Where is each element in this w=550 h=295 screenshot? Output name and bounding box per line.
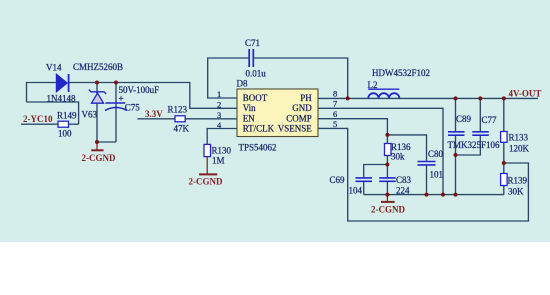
svg-text:C71: C71 bbox=[245, 38, 260, 48]
svg-text:C89: C89 bbox=[456, 114, 472, 124]
svg-text:COMP: COMP bbox=[286, 113, 312, 123]
junction rail at C80 bbox=[425, 193, 429, 197]
svg-text:100: 100 bbox=[58, 129, 72, 139]
svg-text:1N4148: 1N4148 bbox=[47, 94, 76, 104]
wire ground rail bbox=[364, 194, 504, 196]
svg-text:120K: 120K bbox=[509, 144, 530, 154]
wire pin1 BOOT bbox=[208, 58, 249, 98]
svg-text:R133: R133 bbox=[509, 133, 529, 143]
wire main top net (anode side) bbox=[27, 83, 57, 103]
svg-text:V14: V14 bbox=[46, 63, 62, 73]
resistor R139 bbox=[501, 174, 508, 186]
svg-text:TMK325F106: TMK325F106 bbox=[448, 140, 501, 150]
zener diode V63 bbox=[89, 90, 106, 104]
svg-text:224: 224 bbox=[396, 185, 410, 195]
junction C71 at PH bbox=[346, 96, 350, 100]
wire C80 bottom stub bbox=[426, 166, 428, 195]
svg-text:50V-100uF: 50V-100uF bbox=[119, 85, 160, 95]
svg-text:2-CGND: 2-CGND bbox=[189, 177, 223, 187]
svg-text:101: 101 bbox=[430, 169, 444, 179]
wire R139 bottom stub bbox=[503, 186, 505, 195]
wire pin5 VSENSE feedback loop bbox=[318, 128, 528, 221]
ground under rail bbox=[381, 195, 395, 202]
svg-text:C75: C75 bbox=[125, 103, 141, 113]
svg-text:R139: R139 bbox=[508, 176, 528, 186]
wire C71 right to pin8 junction bbox=[254, 58, 348, 98]
svg-text:4V-OUT: 4V-OUT bbox=[509, 89, 542, 99]
capacitor C77 bbox=[472, 132, 489, 135]
svg-text:R136: R136 bbox=[391, 142, 411, 152]
svg-text:VSENSE: VSENSE bbox=[278, 124, 313, 134]
svg-text:2-YC10: 2-YC10 bbox=[23, 114, 53, 124]
capacitor C83 bbox=[379, 178, 396, 181]
wire C69 bottom stub bbox=[363, 182, 365, 195]
resistor R130 bbox=[204, 144, 211, 156]
svg-text:30k: 30k bbox=[391, 151, 405, 161]
inductor L2 bbox=[368, 89, 399, 98]
svg-text:+: + bbox=[119, 94, 124, 104]
svg-text:GND: GND bbox=[292, 103, 312, 113]
capacitor C69 bbox=[356, 178, 373, 181]
svg-text:R130: R130 bbox=[212, 146, 232, 156]
svg-text:2-CGND: 2-CGND bbox=[371, 205, 405, 215]
ground under V63 bbox=[91, 142, 103, 150]
junction R133 top bbox=[502, 96, 506, 100]
wire COMP branch to C80 bbox=[387, 135, 426, 161]
resistor R136 bbox=[385, 144, 392, 156]
svg-text:Vin: Vin bbox=[243, 103, 256, 113]
capacitor C75 bbox=[105, 103, 127, 111]
wire pin6 COMP down bbox=[318, 119, 387, 144]
wire C75 stub bbox=[115, 83, 117, 143]
wire pin7 GND down bbox=[318, 108, 443, 194]
junction R136/C83/C69 node bbox=[385, 163, 389, 167]
ground under R130 bbox=[199, 157, 217, 175]
resistor R123 bbox=[175, 116, 185, 122]
svg-text:C83: C83 bbox=[396, 175, 412, 185]
wire main top net (cathode side to Vin corner) bbox=[69, 83, 237, 109]
svg-text:2: 2 bbox=[217, 99, 221, 109]
svg-text:3.3V: 3.3V bbox=[145, 109, 163, 119]
svg-text:V63: V63 bbox=[82, 110, 98, 120]
svg-text:6: 6 bbox=[333, 109, 337, 119]
junction C89 top bbox=[454, 96, 458, 100]
junction C75 top bbox=[114, 81, 118, 85]
ic U D8 TPS54062 body bbox=[237, 89, 318, 137]
svg-text:1: 1 bbox=[217, 89, 221, 99]
svg-text:R123: R123 bbox=[168, 105, 188, 115]
svg-text:1M: 1M bbox=[212, 156, 225, 166]
svg-text:D8: D8 bbox=[237, 79, 248, 89]
junction zener V63 top bbox=[95, 81, 99, 85]
svg-text:C77: C77 bbox=[482, 115, 498, 125]
svg-text:R149: R149 bbox=[57, 111, 77, 121]
wire pin4 RT/CLK to R130 bbox=[207, 129, 237, 145]
wire pin8 PH output bbox=[318, 97, 538, 99]
svg-text:HDW4532F102: HDW4532F102 bbox=[372, 68, 430, 78]
junction COMP/C80 branch bbox=[385, 133, 389, 137]
resistor R149 bbox=[58, 121, 69, 127]
svg-text:30K: 30K bbox=[508, 187, 524, 197]
svg-text:3: 3 bbox=[217, 110, 221, 120]
svg-text:C80: C80 bbox=[428, 149, 444, 159]
wire R123 to EN pin3 bbox=[185, 118, 237, 120]
svg-text:7: 7 bbox=[333, 98, 337, 108]
junction rail at GND pin leg bbox=[441, 193, 445, 197]
svg-text:2-CGND: 2-CGND bbox=[82, 153, 116, 163]
capacitor C71 bbox=[249, 49, 253, 67]
junction zener/C75 bottom bbox=[95, 140, 99, 144]
svg-text:8: 8 bbox=[333, 88, 337, 98]
wire zener stub bbox=[97, 83, 116, 143]
wire C89 top stub bbox=[455, 98, 457, 131]
wire R133-R139 middle bbox=[503, 142, 505, 174]
junction R133/R139 feedback node bbox=[502, 161, 506, 165]
svg-text:TPS54062: TPS54062 bbox=[239, 143, 277, 153]
wire C83 bottom stub bbox=[386, 182, 388, 195]
wire C77 bottom link bbox=[456, 136, 481, 155]
wire comp node to C69 bbox=[364, 165, 388, 178]
svg-text:BOOT: BOOT bbox=[243, 93, 268, 103]
svg-text:104: 104 bbox=[349, 185, 363, 195]
svg-text:5: 5 bbox=[333, 119, 337, 129]
wire R133 top stub bbox=[503, 98, 505, 131]
capacitor C89 bbox=[448, 132, 465, 135]
svg-text:C69: C69 bbox=[330, 175, 346, 185]
diode V14 bbox=[56, 74, 68, 92]
wire R136 bottom to C83 bbox=[386, 156, 388, 178]
wire C89 bottom stub bbox=[455, 136, 457, 195]
junction C77 top bbox=[478, 96, 482, 100]
wire 3.3V to R123 bbox=[137, 118, 175, 120]
svg-text:CMHZ5260B: CMHZ5260B bbox=[73, 62, 123, 72]
junction rail at C83/gnd bbox=[385, 193, 389, 197]
capacitor C80 bbox=[418, 162, 436, 165]
svg-text:RT/CLK: RT/CLK bbox=[243, 124, 275, 134]
wire lower-left link bbox=[27, 102, 79, 124]
svg-text:47K: 47K bbox=[174, 124, 190, 134]
junction C77 bottom on C89 leg bbox=[454, 153, 458, 157]
svg-text:L2: L2 bbox=[368, 80, 378, 90]
svg-text:PH: PH bbox=[300, 93, 312, 103]
wire C77 top stub bbox=[479, 98, 481, 131]
svg-text:0.01u: 0.01u bbox=[246, 69, 267, 79]
wire R149 to corner bbox=[69, 123, 79, 125]
svg-text:EN: EN bbox=[243, 113, 255, 123]
wire 2-YC10 stub bbox=[21, 123, 58, 125]
junction rail at C89 bbox=[454, 193, 458, 197]
resistor R133 bbox=[501, 132, 508, 143]
